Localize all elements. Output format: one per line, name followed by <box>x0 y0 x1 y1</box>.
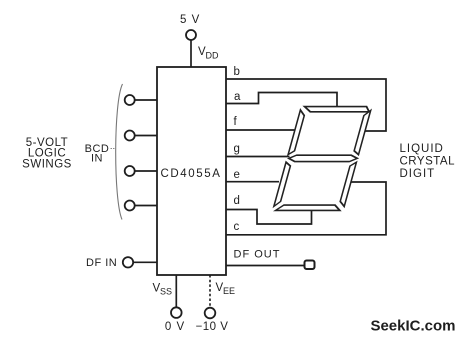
svg-text:SeekIC.com: SeekIC.com <box>370 318 455 335</box>
svg-text:b: b <box>234 66 240 78</box>
svg-text:a: a <box>234 91 241 103</box>
svg-text:d: d <box>234 195 240 207</box>
BCD input terminal 2 <box>125 131 135 141</box>
wire output c <box>226 182 386 235</box>
segment d <box>276 205 342 210</box>
wire output b <box>226 79 386 131</box>
svg-text:−10 V: −10 V <box>196 321 229 333</box>
svg-text:e: e <box>234 169 240 181</box>
svg-text:0 V: 0 V <box>165 321 185 333</box>
svg-text:IN: IN <box>91 153 103 165</box>
segment a <box>303 107 370 112</box>
op-amp U1 CD4055A IC body <box>157 67 226 275</box>
svg-text:CRYSTAL: CRYSTAL <box>400 156 456 168</box>
BCD input terminal 4 <box>125 201 135 211</box>
segment c <box>339 162 357 206</box>
svg-text:EE: EE <box>223 286 235 296</box>
segment b <box>353 110 371 154</box>
wire 5V terminal to VDD pin <box>190 40 192 67</box>
wire output d <box>226 210 312 225</box>
wire output g <box>226 156 290 158</box>
svg-text:DF IN: DF IN <box>86 257 117 269</box>
svg-text:c: c <box>234 221 240 233</box>
svg-text:SWINGS: SWINGS <box>22 159 72 171</box>
svg-text:DIGIT: DIGIT <box>400 168 436 180</box>
DF OUT terminal pad <box>305 261 315 270</box>
wire VSS to 0V terminal <box>175 275 177 307</box>
LCD digit display DS1 <box>273 107 372 211</box>
wire DF OUT <box>226 265 305 267</box>
BCD input terminal 1 <box>125 95 135 105</box>
BCD input terminal 3 <box>125 166 135 176</box>
wire input 2 to IC <box>135 135 157 137</box>
wire DF IN to IC <box>133 261 157 263</box>
segment e <box>274 162 292 206</box>
wire input 3 to IC <box>135 170 157 172</box>
wire input 1 to IC <box>135 99 157 101</box>
wire output e <box>226 181 279 183</box>
svg-text:DF OUT: DF OUT <box>234 249 281 261</box>
svg-text:SS: SS <box>160 287 172 297</box>
segment g <box>288 155 358 161</box>
0 V terminal <box>171 307 182 318</box>
svg-text:DD: DD <box>206 51 219 61</box>
DF IN terminal <box>123 257 133 267</box>
svg-text:5 V: 5 V <box>180 14 200 26</box>
tick from BCD label to bracket <box>111 148 115 150</box>
segment f <box>288 110 306 155</box>
wire output f <box>226 129 296 131</box>
svg-text:LIQUID: LIQUID <box>400 143 444 155</box>
wire VEE to -10V terminal (dashed) <box>209 275 211 308</box>
svg-text:g: g <box>234 143 240 155</box>
wire output a <box>226 93 337 108</box>
bracket around BCD inputs <box>116 84 123 220</box>
wire input 4 to IC <box>135 205 157 207</box>
-10 V terminal <box>205 308 216 319</box>
5 V terminal <box>186 30 196 40</box>
svg-text:CD4055A: CD4055A <box>160 168 221 180</box>
